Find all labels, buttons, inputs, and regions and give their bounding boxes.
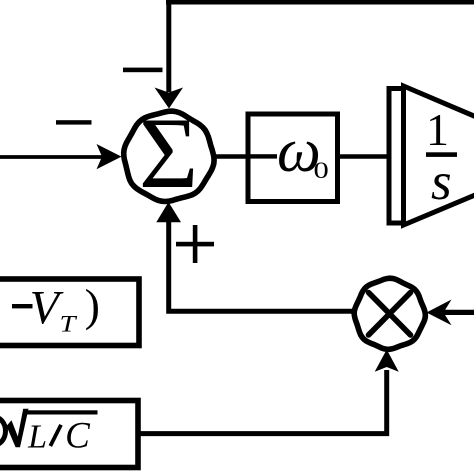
arrowhead into summing junction left [97,144,122,169]
vinculum bar of sqrt block [23,410,98,414]
svg-text:s: s [431,153,452,211]
svg-text:V: V [30,281,64,334]
summing junction circle [124,111,214,201]
minus sign (left input) [56,120,92,124]
radical sign of sqrt block [7,409,29,447]
multiply X symbol [369,293,411,336]
svg-text:Σ: Σ [139,97,198,210]
partial omega0 glyph at left edge of sqrt block [0,417,6,445]
plus sign (bottom input) [176,242,214,247]
wire right input to multiplier [441,310,474,315]
svg-text:L: L [27,419,47,456]
svg-text:T: T [60,311,78,337]
minus sign in omega0 block [248,154,277,158]
integrator triangle 1/s [404,86,474,225]
gain block -omega0 box [248,114,338,202]
block sqrt(L/C) box [0,401,138,468]
svg-text:C: C [65,416,91,457]
wire top feedback horizontal [166,0,474,5]
svg-text:1: 1 [426,104,449,155]
arrowhead into summing junction bottom [156,202,181,222]
arrowhead into multiplier bottom [375,350,399,372]
block (V-VT) box [0,279,139,346]
arrowhead into summing junction top [155,88,184,109]
integrator input rectangle [389,89,404,224]
svg-text:0: 0 [314,157,329,183]
slash of sqrt LC [50,425,61,446]
minus sign in VT block [12,304,33,308]
multiplier circle [354,278,425,349]
wire from sqrt block to multiplier bottom [140,370,387,434]
wire left input [0,155,102,159]
wire summing to omega0 block [212,154,247,159]
svg-text:): ) [85,280,100,331]
fraction bar of integrator [426,152,457,157]
minus sign (top input) [123,68,163,73]
wire from multiplier up to summing junction [169,220,355,311]
arrowhead into multiplier right [427,300,452,326]
wire omega0 block to integrator [337,154,390,158]
wire top feedback vertical [166,0,171,92]
